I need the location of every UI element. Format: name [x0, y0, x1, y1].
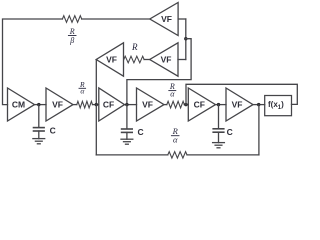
- resistor R/alpha bottom: [168, 152, 187, 158]
- op-amp CF1: [99, 88, 125, 121]
- wire VF3 output to f(x1) box: [253, 104, 265, 106]
- resistor R/alpha second: [167, 101, 185, 108]
- svg-text:β: β: [69, 36, 74, 45]
- block f(x1): [265, 96, 292, 116]
- wire VF2 output to resistor: [164, 104, 167, 106]
- svg-text:VF: VF: [161, 14, 172, 24]
- op-amp VF row2 left buffer (left-pointing): [96, 43, 123, 76]
- label R/alpha first: [79, 80, 86, 96]
- wire resistor to CF1: [93, 104, 99, 106]
- wire resistor R to VF2R apex: [144, 59, 150, 61]
- svg-text:VF: VF: [106, 54, 117, 64]
- op-amp CF2: [188, 88, 215, 121]
- wire CF1 output to VF2: [125, 104, 137, 106]
- svg-text:CF: CF: [103, 99, 114, 109]
- svg-text:α: α: [173, 134, 178, 144]
- wire vertical joining VF buffer inputs: [185, 19, 187, 60]
- wire from top VF output to resistor R/beta: [82, 18, 150, 20]
- wire VF1 output to resistor: [73, 104, 77, 106]
- wire node N5 down to bottom feedback: [258, 105, 260, 155]
- svg-text:VF: VF: [52, 99, 63, 109]
- svg-text:CM: CM: [12, 99, 25, 109]
- wire resistor to CF2: [184, 104, 188, 106]
- node B: [95, 103, 98, 106]
- svg-text:VF: VF: [232, 99, 243, 109]
- ground under C1: [33, 139, 45, 144]
- op-amp VF3: [226, 88, 253, 121]
- op-amp VF1: [46, 88, 73, 121]
- capacitor C2: [122, 105, 133, 140]
- wire CM output to VF1: [35, 104, 47, 106]
- node junction D1: [184, 37, 187, 40]
- bottom feedback wire: [96, 154, 168, 156]
- op-amp VF row2 right buffer (left-pointing): [150, 43, 178, 76]
- label R/alpha second: [169, 82, 176, 99]
- op-amp VF2: [137, 88, 165, 121]
- node N3: [184, 103, 187, 106]
- wire from node D1 to feedback line L1: [127, 39, 191, 105]
- wire top feedback from R/beta to left edge and down to CM input: [3, 19, 63, 105]
- svg-text:C: C: [138, 127, 144, 137]
- label R/beta: [68, 27, 76, 45]
- svg-text:C: C: [227, 127, 233, 137]
- capacitor C3: [213, 105, 224, 143]
- node A: [37, 103, 40, 106]
- wire VF2L output down to node B: [95, 60, 97, 105]
- svg-text:f(x1): f(x1): [268, 100, 284, 111]
- svg-text:C: C: [50, 126, 56, 136]
- resistor R/alpha first: [77, 101, 93, 108]
- resistor R/beta: [62, 16, 81, 23]
- wire row2 VF input stub: [178, 59, 186, 61]
- wire bottom feedback right segment: [187, 154, 259, 156]
- ground under C3: [213, 143, 225, 148]
- node N2: [125, 103, 128, 106]
- capacitor C1: [34, 105, 45, 139]
- svg-text:CF: CF: [194, 99, 205, 109]
- node N4: [217, 103, 220, 106]
- svg-text:VF: VF: [161, 54, 172, 64]
- wire node B down to bottom feedback: [95, 105, 97, 155]
- wire CF2 output to VF3: [216, 104, 227, 106]
- svg-text:R: R: [69, 27, 75, 36]
- op-amp VF top buffer (left-pointing): [150, 3, 178, 36]
- svg-text:VF: VF: [142, 99, 153, 109]
- node N5 output x1: [257, 103, 260, 106]
- svg-text:R: R: [131, 42, 138, 52]
- label R/alpha bottom: [171, 126, 179, 144]
- ground under C2: [121, 139, 133, 144]
- wire feedback L2 from node N3 up over CF2/VF3 to f(x1) output: [186, 84, 297, 104]
- resistor R row2: [124, 56, 144, 63]
- wire top VF input stub: [178, 18, 186, 20]
- op-amp CM: [8, 88, 35, 121]
